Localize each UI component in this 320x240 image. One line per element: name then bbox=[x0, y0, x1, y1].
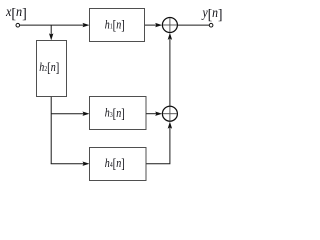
arrowhead into adder2 bbox=[155, 112, 162, 116]
svg-text:h4[n]: h4[n] bbox=[105, 156, 125, 172]
svg-text:h3[n]: h3[n] bbox=[105, 106, 125, 122]
arrowhead into h3 bbox=[83, 112, 90, 116]
block h3 bbox=[90, 97, 147, 130]
label x[n] bbox=[5, 5, 27, 22]
svg-text:h1[n]: h1[n] bbox=[105, 17, 125, 33]
arrowhead up into adder2 bbox=[168, 122, 172, 129]
block h4 bbox=[90, 148, 147, 181]
wire adder2 to adder1 bbox=[169, 39, 171, 106]
wire branch to h3 bbox=[51, 113, 83, 115]
node x[n] input terminal bbox=[16, 23, 20, 27]
wire h1 to adder1 bbox=[145, 24, 157, 26]
arrowhead into adder1 bbox=[155, 23, 162, 27]
wire to h4 bbox=[51, 163, 84, 165]
arrowhead into h1 bbox=[83, 23, 90, 27]
arrowhead into h4 bbox=[83, 162, 90, 166]
wire h3 to adder2 bbox=[146, 113, 156, 115]
label h3[n] bbox=[105, 106, 125, 122]
wire adder1 to y bbox=[177, 24, 209, 26]
block h2 bbox=[37, 41, 67, 97]
label y[n] bbox=[201, 6, 223, 24]
label h1[n] bbox=[105, 17, 125, 33]
arrowhead into h2 bbox=[49, 33, 53, 40]
block h1 bbox=[90, 9, 145, 42]
label h2[n] bbox=[39, 60, 59, 76]
svg-text:h2[n]: h2[n] bbox=[39, 60, 59, 76]
wire h4 to adder2 bbox=[146, 128, 170, 164]
wire h2 down bbox=[50, 97, 52, 164]
wire branch down to h2 bbox=[50, 25, 52, 35]
label h4[n] bbox=[105, 156, 125, 172]
adder A2 bbox=[162, 106, 177, 121]
node y[n] output terminal bbox=[209, 23, 213, 27]
wire x to h1 bbox=[20, 24, 84, 26]
adder A1 bbox=[162, 18, 177, 33]
arrowhead up into adder1 bbox=[168, 33, 172, 40]
